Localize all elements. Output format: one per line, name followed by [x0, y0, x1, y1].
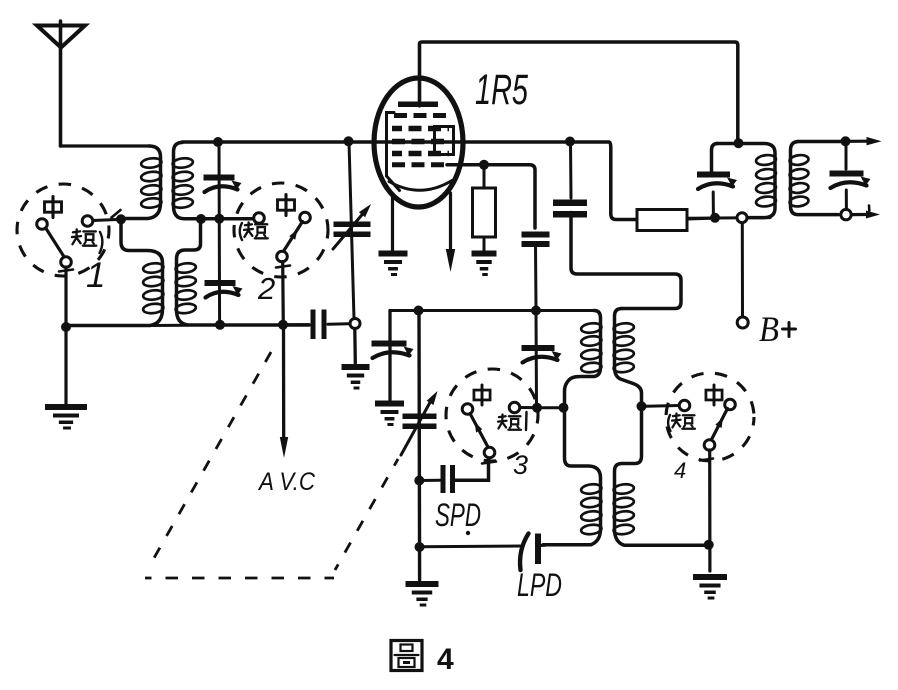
- node junction grid rail/C6: [565, 137, 575, 147]
- node junction osc rail/main vertical: [414, 306, 424, 316]
- trimmer capacitor C10: [522, 345, 562, 363]
- inductor L3 (SW tuned secondary): [172, 143, 254, 219]
- S2 contact SW: [254, 213, 265, 224]
- S1 paren: [100, 232, 103, 253]
- caption figure number 4: [437, 643, 454, 676]
- node junction T1 tap: [112, 210, 127, 224]
- gang coupling dashed line: [145, 352, 398, 578]
- ground G7 (switch S4): [693, 574, 727, 600]
- node junction T3 left tap: [559, 403, 569, 413]
- node junction L3 top / grid rail: [213, 137, 223, 147]
- ground G2 (ant tuning): [342, 364, 370, 390]
- band switch S4 dashed circle: [666, 373, 754, 461]
- inductor L7 (osc MW grid winding): [543, 412, 602, 545]
- label B+: [759, 309, 796, 349]
- wire S1 pivot down: [64, 267, 67, 404]
- S3 paren: [525, 412, 528, 430]
- S1 contact SW: [82, 216, 93, 227]
- tube U1 plate bar: [398, 102, 438, 108]
- S2 label 短: [244, 222, 268, 238]
- wire S4 SW contact wire: [646, 404, 679, 408]
- node junction screen/resistor: [479, 160, 489, 170]
- tube U1 grid row 3: [392, 139, 449, 145]
- inductor L2 (antenna MW primary): [66, 219, 164, 325]
- wire AVC down: [282, 329, 286, 440]
- S2 label 中: [278, 195, 295, 216]
- S3 wiper arm: [470, 414, 496, 464]
- wire osc rail to trimmer C7: [388, 311, 391, 401]
- S2 wiper arm: [276, 222, 303, 268]
- tube U1 filament leg left: [391, 197, 394, 250]
- S4 paren: [668, 415, 670, 431]
- svg-text:SPD: SPD: [435, 497, 481, 533]
- wire grid rail to tuning cap: [349, 142, 354, 319]
- variable capacitor C8 (osc tuning): [401, 391, 438, 455]
- node junction R2/IFT/B+: [710, 213, 720, 223]
- wire S4 pivot down: [708, 450, 711, 571]
- S2 pivot: [277, 251, 288, 262]
- svg-text:A V.C: A V.C: [257, 468, 316, 496]
- wire rail to C6: [569, 142, 573, 198]
- B+ terminal: [737, 317, 748, 328]
- wire oscillator rail: [390, 309, 594, 312]
- S1 label 1: [86, 256, 105, 295]
- capacitor C3 (osc coupling): [311, 310, 327, 340]
- S3 pivot: [484, 447, 495, 458]
- wire tuning bus vertical: [218, 142, 222, 325]
- inductor L5 (osc SW grid winding): [565, 311, 602, 405]
- wire B+ drop: [741, 224, 744, 318]
- IF output top lead: [850, 137, 882, 146]
- wire SPD tap to cap: [419, 479, 440, 482]
- svg-text:LPD: LPD: [517, 567, 562, 603]
- wire grid rail: [182, 142, 636, 220]
- ground G3 (tube filament): [379, 251, 408, 277]
- S2 label 2: [257, 271, 275, 306]
- node junction SPD tap: [414, 476, 424, 486]
- wire L1-L2 bottom rail bridge: [150, 324, 188, 327]
- S4 contact MW: [725, 399, 736, 410]
- node junction T3 right tap: [637, 401, 647, 411]
- node ring IF output bottom: [841, 209, 851, 219]
- trimmer capacitor C13 (IFT secondary): [830, 171, 871, 189]
- node junction osc rail/C5: [531, 306, 541, 316]
- node junction bus/bottom rail: [215, 320, 225, 330]
- label LPD: [517, 567, 562, 603]
- wire tube to osc chain: [447, 165, 535, 228]
- capacitor C9 SPD: [441, 465, 456, 493]
- S1 wiper arm: [46, 229, 73, 272]
- ground G1 (switch S1): [45, 404, 87, 430]
- node junction osc vertical/bottom rail: [415, 542, 425, 552]
- wire S3 SW contact to osc grid line: [520, 406, 534, 409]
- S3 contact MW: [462, 404, 473, 415]
- node junction osc grid node: [532, 403, 542, 413]
- tube U1 1R5 envelope: [374, 78, 463, 207]
- svg-text:2: 2: [257, 271, 275, 306]
- ground G4 (resistor R1): [472, 251, 497, 277]
- S3 label 3: [513, 450, 528, 480]
- IF transformer primary winding L9: [712, 144, 777, 218]
- inductor L8 (osc MW tickler winding): [613, 411, 704, 546]
- S1 label 短: [72, 229, 96, 245]
- S3 contact SW: [509, 402, 520, 413]
- wire bottom rail left: [420, 545, 521, 549]
- IF output bottom lead: [852, 206, 881, 219]
- tube U1 filament arc: [389, 181, 452, 191]
- S4 wiper arm: [700, 409, 728, 461]
- band switch S3 dashed circle: [446, 369, 538, 461]
- tube U1 filament leg right (A-): [446, 193, 455, 272]
- tube U1 grid row 5: [392, 162, 449, 167]
- trimmer capacitor C7 (osc padder): [372, 341, 414, 359]
- wire osc vertical: [417, 311, 421, 581]
- wire C6 to T3 SW tickler: [571, 213, 681, 309]
- S3 label 短: [498, 414, 521, 429]
- S1 contact MW: [37, 219, 48, 230]
- trimmer capacitor C2 (MW ant): [205, 280, 243, 298]
- ground G6 (osc vertical): [406, 581, 439, 607]
- wire SW1 contact to T1 tap: [93, 220, 117, 221]
- wire tuning cap to ground: [353, 329, 357, 364]
- band switch S2 dashed circle: [234, 183, 328, 277]
- S1 label 中: [45, 197, 62, 218]
- wire bottom rail to coupling cap: [283, 323, 309, 326]
- S4 label 4: [674, 458, 686, 483]
- node junction top rail/IFT: [734, 138, 744, 148]
- S2 contact MW: [300, 212, 311, 223]
- resistor R1 (to ground): [473, 169, 496, 250]
- svg-text:4: 4: [674, 458, 686, 483]
- label A V.C: [257, 468, 316, 496]
- wire IFT sec trimmer vertical: [845, 146, 848, 209]
- node junction grid rail/tuning cap: [344, 136, 354, 146]
- tube U1 plate lead: [418, 44, 421, 106]
- wire SPD cap to S3 pivot: [455, 458, 489, 480]
- tube U1 grid row 2: [392, 126, 449, 132]
- resistor R2 (plate decoupling): [637, 210, 711, 231]
- node junction AVC tap: [278, 320, 288, 330]
- node junction S1/ground rail: [61, 322, 71, 332]
- band switch S1 dashed circle: [17, 184, 109, 276]
- ground G5 (osc padder): [375, 401, 404, 427]
- inductor L1 (antenna SW primary): [122, 146, 162, 219]
- wire IFT primary bottom: [688, 216, 770, 220]
- node ring osc grid tap: [350, 319, 360, 329]
- S4 pivot: [704, 440, 715, 451]
- wire C5 to osc rail: [534, 245, 538, 307]
- wire coupling cap to osc grid node: [328, 322, 349, 326]
- tube U1 left electrode support: [387, 113, 400, 191]
- tube U1 grid cage box: [435, 127, 454, 155]
- antenna: [37, 21, 85, 146]
- inductor L4 (MW tuned secondary): [175, 219, 309, 325]
- AVC arrow: [280, 437, 288, 458]
- node ring B+ tap: [737, 213, 747, 223]
- svg-text:1R5: 1R5: [475, 66, 529, 114]
- svg-text:4: 4: [437, 643, 454, 676]
- label 1R5: [475, 66, 529, 114]
- wire bottom rail LPD to L7: [541, 544, 545, 547]
- svg-text:3: 3: [513, 450, 528, 480]
- capacitor C11 LPD: [520, 534, 541, 571]
- svg-text:B: B: [759, 309, 779, 349]
- S4 contact SW: [679, 400, 690, 411]
- S1 pivot: [61, 257, 72, 268]
- wire osc grid node to T3: [541, 406, 560, 409]
- wire S2 pivot to AVC rail: [281, 262, 285, 326]
- wire C5 node to trimmer E: [535, 311, 539, 405]
- wire antenna to T1 primary: [61, 144, 151, 147]
- tube U1 grid row 4: [392, 151, 449, 157]
- S4 label 中: [706, 385, 722, 405]
- label SPD: [435, 497, 481, 535]
- S3 label 中: [474, 385, 490, 405]
- S2 paren: [240, 223, 242, 240]
- svg-text:1: 1: [86, 256, 105, 295]
- capacitor C5 (fixed, osc chain): [522, 232, 550, 248]
- S4 label 短: [672, 413, 695, 428]
- capacitor C6 (feedback): [553, 200, 587, 218]
- trimmer capacitor C1 (SW ant): [204, 175, 242, 193]
- variable capacitor C4 (ant tuning): [333, 204, 371, 249]
- node junction L3 bottom: [196, 214, 206, 224]
- trimmer capacitor C12 (IFT primary): [697, 172, 737, 190]
- IF transformer secondary winding L10: [789, 142, 842, 215]
- tube U1 grid row 1: [394, 113, 447, 118]
- wire B+ top rail: [420, 42, 738, 140]
- caption 圖: [391, 641, 422, 671]
- node junction IFT secondary top: [841, 136, 851, 146]
- inductor L6 (osc SW tickler winding): [613, 309, 641, 404]
- node junction bus/L3 bottom rail: [214, 214, 224, 224]
- node junction S4/bottom rail: [704, 540, 714, 550]
